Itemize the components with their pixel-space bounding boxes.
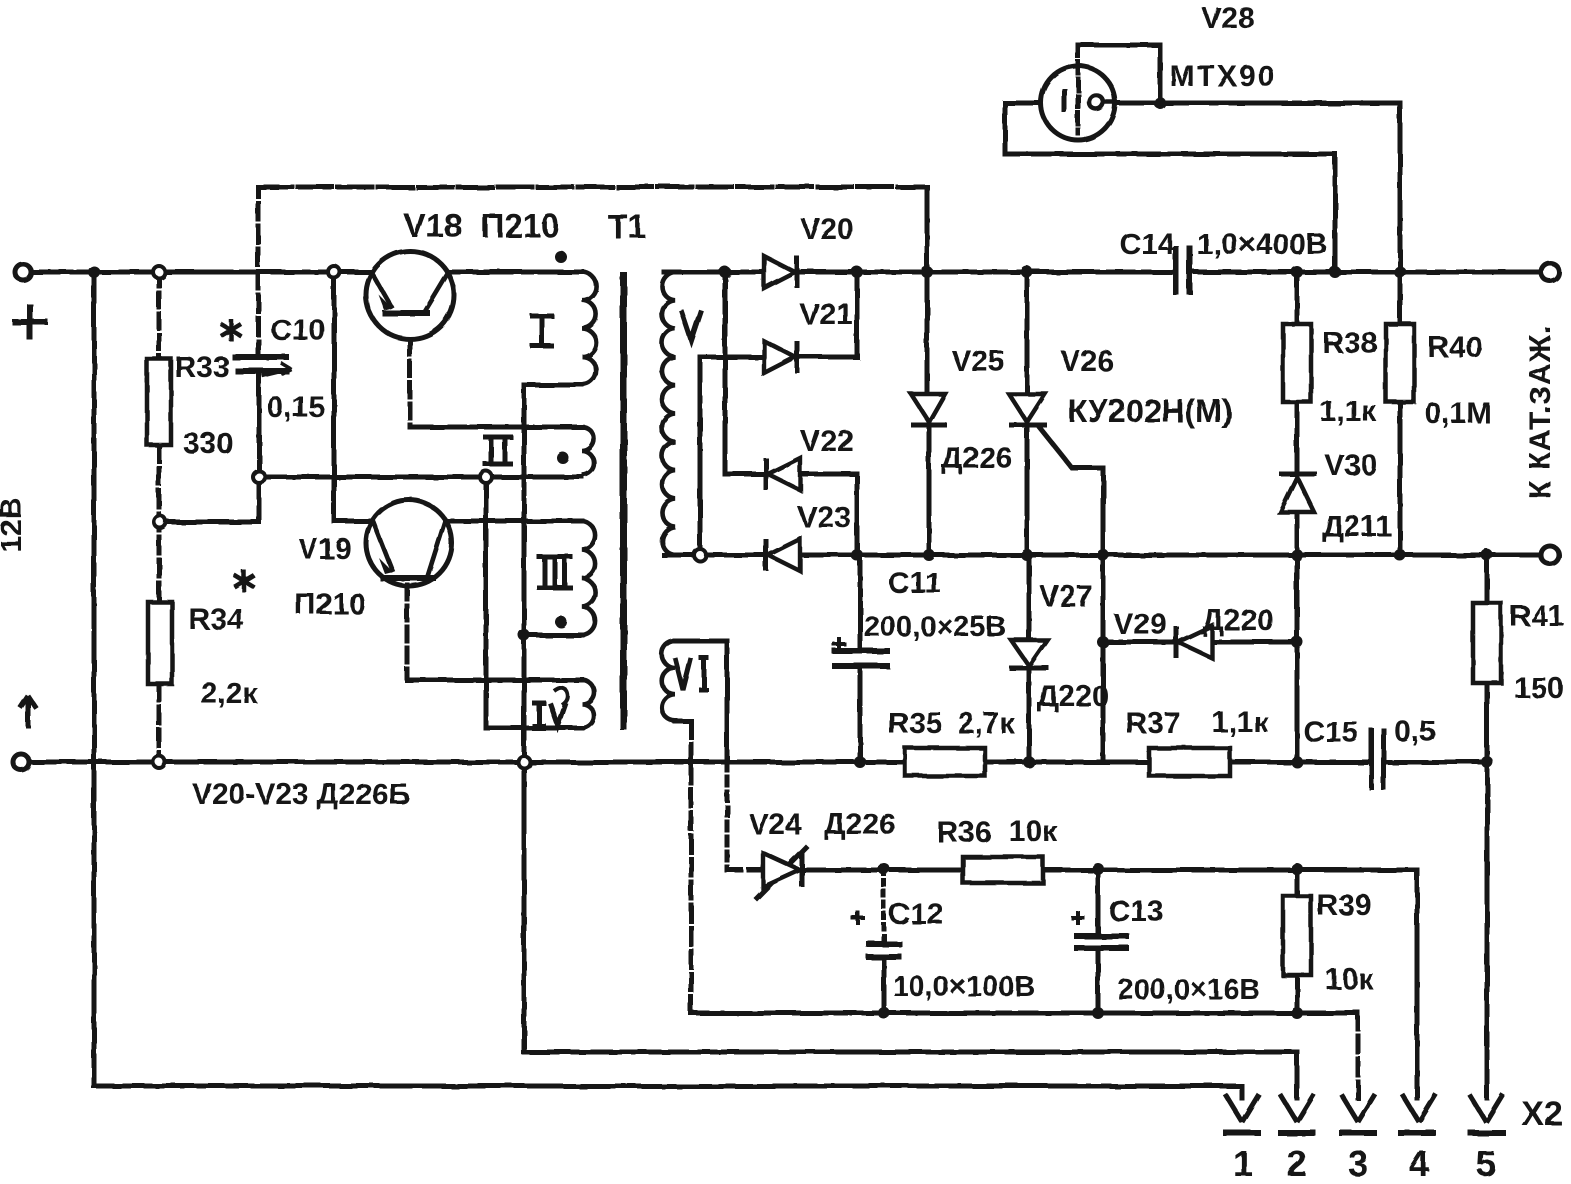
svg-text:V26: V26 xyxy=(1060,345,1113,378)
svg-text:С11: С11 xyxy=(888,567,941,600)
svg-text:200,0×25В: 200,0×25В xyxy=(864,611,1007,643)
svg-text:V18: V18 xyxy=(404,207,463,244)
svg-text:12В: 12В xyxy=(0,497,28,552)
svg-text:10к: 10к xyxy=(1325,963,1374,996)
svg-text:R41: R41 xyxy=(1509,600,1564,633)
svg-text:V30: V30 xyxy=(1324,449,1377,482)
svg-text:4: 4 xyxy=(1409,1143,1429,1184)
svg-text:V29: V29 xyxy=(1113,608,1166,641)
svg-text:Д226: Д226 xyxy=(824,808,895,841)
svg-text:1,0×400В: 1,0×400В xyxy=(1197,228,1328,261)
svg-text:1,1к: 1,1к xyxy=(1212,706,1270,739)
svg-text:V22: V22 xyxy=(800,425,853,458)
svg-text:Д226: Д226 xyxy=(941,442,1012,475)
svg-text:0,5: 0,5 xyxy=(1394,715,1436,748)
svg-text:0,1М: 0,1М xyxy=(1425,397,1492,430)
svg-text:V28: V28 xyxy=(1201,2,1254,35)
svg-text:К КАТ.ЗАЖ.: К КАТ.ЗАЖ. xyxy=(1524,325,1557,499)
svg-text:П210: П210 xyxy=(294,588,366,621)
svg-text:X2: X2 xyxy=(1521,1095,1563,1133)
svg-text:R36: R36 xyxy=(936,816,991,849)
svg-text:2: 2 xyxy=(1287,1143,1307,1184)
svg-text:С14: С14 xyxy=(1119,228,1174,261)
svg-text:R37: R37 xyxy=(1125,707,1180,740)
svg-text:С12: С12 xyxy=(888,898,943,931)
svg-text:Т1: Т1 xyxy=(608,208,647,245)
svg-text:V21: V21 xyxy=(799,298,852,331)
svg-text:R40: R40 xyxy=(1427,331,1482,364)
svg-text:R33: R33 xyxy=(174,351,229,384)
svg-text:С10: С10 xyxy=(270,314,325,347)
svg-text:330: 330 xyxy=(183,427,233,460)
svg-text:R35: R35 xyxy=(887,707,942,740)
svg-text:0,15: 0,15 xyxy=(267,391,325,424)
svg-text:Д220: Д220 xyxy=(1037,680,1108,713)
svg-text:R39: R39 xyxy=(1316,889,1371,922)
svg-text:V19: V19 xyxy=(298,533,351,566)
svg-text:КУ202Н(М): КУ202Н(М) xyxy=(1068,393,1233,429)
svg-text:МТХ90: МТХ90 xyxy=(1170,60,1277,93)
svg-text:150: 150 xyxy=(1514,672,1564,705)
svg-text:R34: R34 xyxy=(188,603,243,636)
svg-text:10,0×100В: 10,0×100В xyxy=(893,971,1036,1003)
svg-text:R38: R38 xyxy=(1322,327,1377,360)
svg-text:V20-V23 Д226Б: V20-V23 Д226Б xyxy=(192,778,410,811)
svg-text:2,2к: 2,2к xyxy=(201,677,259,710)
svg-text:2,7к: 2,7к xyxy=(958,707,1016,740)
svg-text:С15: С15 xyxy=(1303,716,1358,749)
svg-text:Д220: Д220 xyxy=(1202,604,1273,637)
svg-text:200,0×16В: 200,0×16В xyxy=(1118,974,1261,1006)
svg-text:V23: V23 xyxy=(797,501,850,534)
svg-text:V24: V24 xyxy=(748,808,802,841)
svg-text:V20: V20 xyxy=(800,213,853,246)
svg-text:10к: 10к xyxy=(1009,815,1058,848)
svg-text:5: 5 xyxy=(1476,1143,1496,1184)
svg-text:3: 3 xyxy=(1348,1143,1368,1184)
svg-text:Д211: Д211 xyxy=(1322,510,1392,543)
svg-text:С13: С13 xyxy=(1108,895,1163,928)
svg-text:V27: V27 xyxy=(1039,580,1092,613)
svg-text:1: 1 xyxy=(1233,1143,1253,1184)
svg-text:V25: V25 xyxy=(951,345,1004,378)
svg-text:П210: П210 xyxy=(481,207,560,244)
svg-text:1,1к: 1,1к xyxy=(1320,395,1378,428)
